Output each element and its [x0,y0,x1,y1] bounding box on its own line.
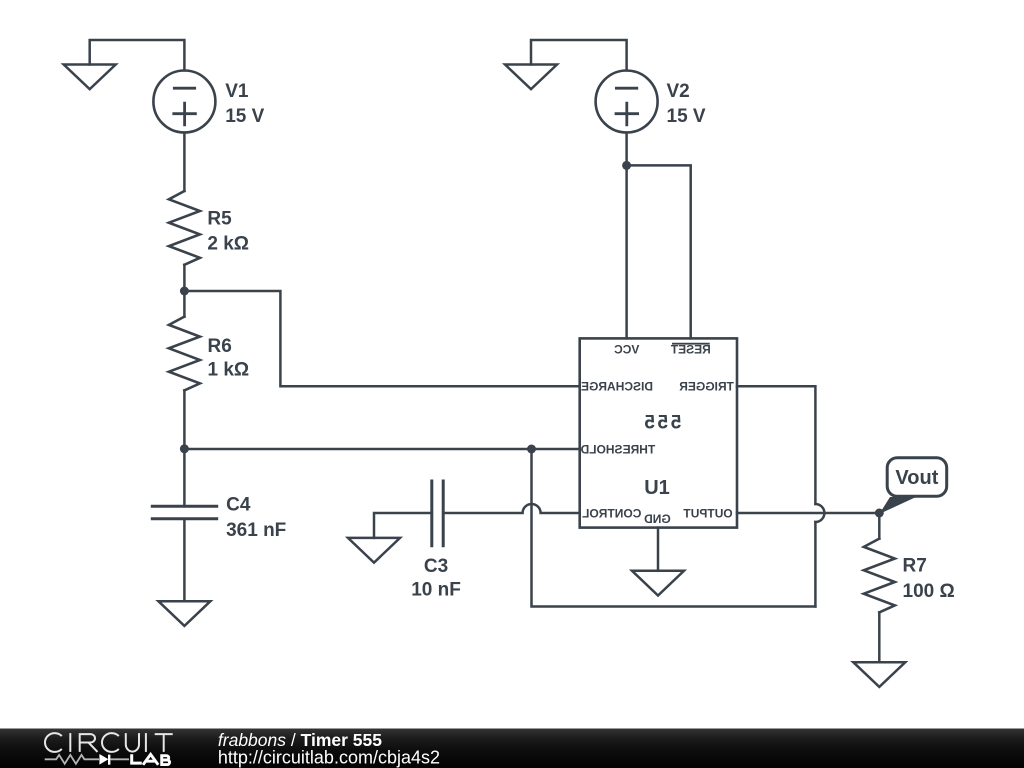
svg-text:RESET: RESET [670,343,711,357]
svg-text:DISCHARGE: DISCHARGE [581,380,653,394]
svg-text:V2: V2 [667,81,690,102]
svg-text:http://circuitlab.com/cbja4s2: http://circuitlab.com/cbja4s2 [218,748,440,768]
svg-text:C4: C4 [226,494,251,515]
svg-text:15 V: 15 V [667,106,706,127]
svg-text:VCC: VCC [614,343,640,357]
svg-text:2 kΩ: 2 kΩ [207,233,249,254]
svg-text:CONTROL: CONTROL [582,506,641,520]
svg-text:Vout: Vout [895,467,938,489]
svg-text:R7: R7 [903,555,927,576]
svg-text:100 Ω: 100 Ω [903,581,955,602]
svg-text:OUTPUT: OUTPUT [683,506,733,520]
svg-text:1 kΩ: 1 kΩ [208,360,250,381]
svg-text:THRESHOLD: THRESHOLD [580,443,655,457]
svg-text:R5: R5 [207,208,232,229]
svg-text:555: 555 [642,412,682,433]
svg-text:R6: R6 [208,336,232,357]
svg-text:GND: GND [644,512,671,526]
svg-text:10 nF: 10 nF [411,579,461,600]
svg-text:U1: U1 [644,477,670,499]
svg-text:TRIGGER: TRIGGER [679,380,734,394]
svg-text:361 nF: 361 nF [226,520,286,541]
svg-text:V1: V1 [225,81,249,102]
svg-text:15 V: 15 V [225,106,264,127]
svg-text:C3: C3 [424,556,448,577]
